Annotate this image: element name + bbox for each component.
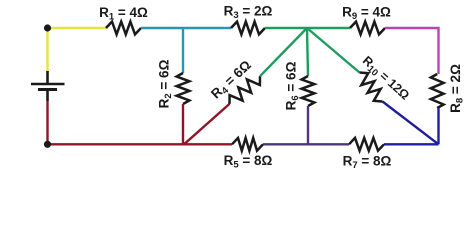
svg-text:R5 = 8Ω: R5 = 8Ω <box>224 153 273 170</box>
svg-text:R9 = 4Ω: R9 = 4Ω <box>342 5 391 23</box>
wire cyan: R1 to R3 through node above R2 <box>141 27 231 29</box>
svg-text:R6 = 6Ω: R6 = 6Ω <box>284 61 302 110</box>
battery V1 <box>31 71 65 101</box>
label R5 = 8Ω <box>224 153 273 171</box>
wire green diagonal: junction to R10 <box>307 28 360 73</box>
label R9 = 4Ω <box>342 5 391 23</box>
wire magenta: R9 to top-right corner and down to R8 <box>385 28 439 74</box>
resistor R4 <box>230 76 261 104</box>
wire dark red bottom: node B to R5 <box>48 143 233 145</box>
resistor R7 <box>349 138 384 151</box>
label R6 = 6Ω <box>284 61 302 110</box>
resistor R10 <box>360 73 383 102</box>
wire purple: R6 down to bottom wire <box>307 106 309 144</box>
circuit schematic: series-parallel resistor network <box>0 0 474 170</box>
wire navy: R8 to bottom-right node <box>437 108 439 144</box>
wire green: R3 to junction node <box>265 27 307 29</box>
wire yellow top: node A to R1 <box>48 27 107 29</box>
label R10 = 12Ω <box>358 53 412 104</box>
node B (bottom-left junction dot) <box>44 141 51 148</box>
wire yellow: node A down to battery <box>46 28 48 72</box>
svg-text:R8 = 2Ω: R8 = 2Ω <box>448 64 466 113</box>
resistor R6 <box>302 76 315 106</box>
svg-text:R3 = 2Ω: R3 = 2Ω <box>224 4 273 22</box>
resistor R9 <box>350 22 385 35</box>
wire green: junction to R9 <box>307 27 350 29</box>
svg-text:R1 = 4Ω: R1 = 4Ω <box>99 5 148 23</box>
label R1 = 4Ω <box>99 5 148 23</box>
label R7 = 8Ω <box>343 154 392 172</box>
wire dark red: R2 down to bottom node <box>182 104 184 144</box>
wire purple: R5 to R7 through node below R6 <box>263 143 349 145</box>
resistor R1 <box>106 22 141 35</box>
resistor R5 <box>232 138 263 151</box>
label R2 = 6Ω <box>157 59 175 108</box>
svg-text:R2 = 6Ω: R2 = 6Ω <box>157 59 175 108</box>
label R8 = 2Ω <box>448 64 466 113</box>
wire navy diagonal: R10 to bottom-right node <box>383 102 439 145</box>
label R3 = 2Ω <box>224 4 273 22</box>
resistor R2 <box>177 73 190 104</box>
label R4 = 6Ω <box>208 57 256 103</box>
wire green: junction down to R6 <box>307 28 308 76</box>
wire dark red diagonal: bottom node to R4 <box>184 104 230 144</box>
node A (top-left junction dot) <box>44 24 51 31</box>
svg-text:R7 = 8Ω: R7 = 8Ω <box>343 154 392 171</box>
wire navy: bottom-right node to R7 <box>384 143 439 145</box>
wire green diagonal: R4 to junction <box>260 28 307 76</box>
wire dark red: battery down to node B <box>46 101 48 144</box>
wire cyan: top node down to R2 <box>182 28 184 73</box>
resistor R3 <box>231 22 265 35</box>
resistor R8 <box>431 74 444 108</box>
